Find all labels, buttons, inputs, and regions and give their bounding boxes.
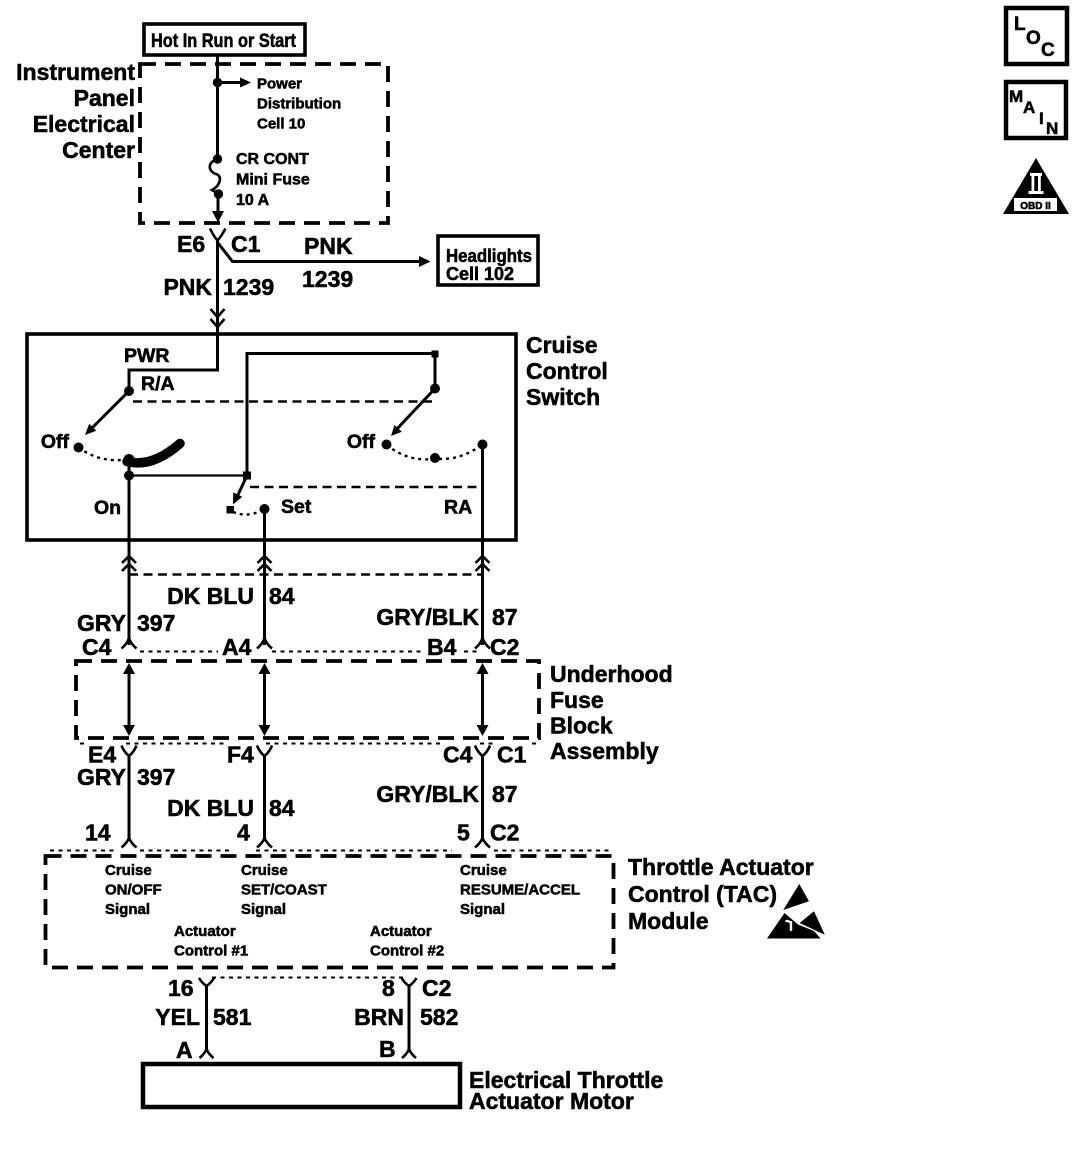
wire from Hot In Run or Start into instrument panel [216,55,219,159]
svg-text:L: L [1014,14,1026,35]
svg-text:ON/OFF: ON/OFF [105,882,162,899]
wire On to set pivot [129,474,247,476]
label CR CONT Mini Fuse 10 A [236,151,310,209]
svg-text:84: 84 [269,795,295,821]
node junction to Power Distribution [213,78,222,87]
connector face dotted line below TAC [212,977,404,979]
svg-text:Cruise: Cruise [526,332,598,358]
svg-text:Actuator: Actuator [174,923,236,940]
svg-text:5: 5 [457,820,470,846]
svg-text:397: 397 [137,764,175,790]
connector C1 terminal E6 [177,229,261,258]
svg-text:87: 87 [492,604,518,630]
svg-text:Cruise: Cruise [105,862,152,879]
svg-text:Center: Center [62,137,135,163]
svg-text:Control: Control [526,358,608,384]
svg-text:SET/COAST: SET/COAST [241,882,327,899]
connector wire-end flares above TAC module [122,838,491,848]
dashed detent line upper [133,400,433,402]
wire GRY 397 lower [77,756,175,838]
label GRY 397 upper [77,610,175,636]
svg-text:8: 8 [382,975,395,1001]
svg-text:Instrument: Instrument [16,59,135,85]
label terminals E4 F4 C4 C1 [88,742,527,768]
svg-text:Underhood: Underhood [550,661,673,687]
svg-text:Mini Fuse: Mini Fuse [236,172,310,189]
cruise control switch box [27,334,516,540]
contact square set arm end [227,506,235,514]
node R/A pivot (right switch) [430,384,440,394]
terminal B flare at motor [379,1036,416,1062]
node Off (left) [41,431,84,453]
svg-text:Block: Block [550,713,613,739]
svg-text:GRY: GRY [77,764,126,790]
wire break chevrons below switch [122,556,490,571]
svg-text:C: C [1041,40,1055,61]
node Off (right) [347,431,392,453]
wire arrow to Power Distribution Cell 10 [218,78,252,88]
label pin Cruise SET/COAST Signal [241,862,327,918]
wire PNK 1239 down from connector [163,240,274,305]
label Electrical Throttle Actuator Motor [469,1067,663,1114]
svg-text:C1: C1 [497,742,527,768]
svg-text:Module: Module [628,908,709,934]
node RA [444,440,488,519]
dotted travel arc to Set [233,510,262,515]
wire Set output down [263,509,266,645]
node R/A pivot [124,373,175,396]
svg-text:Hot In Run or Start: Hot In Run or Start [151,31,297,52]
svg-text:O: O [1026,28,1041,49]
svg-text:Set: Set [281,496,312,518]
svg-text:Signal: Signal [241,901,286,918]
label terminals C4 A4 B4 C2 [82,634,519,660]
svg-text:87: 87 [492,781,518,807]
svg-text:Throttle Actuator: Throttle Actuator [628,854,814,880]
label Instrument Panel Electrical Center [16,59,135,163]
svg-text:E6: E6 [177,231,205,257]
label GRY/BLK 87 upper [376,604,517,630]
bold wiper arc On position [124,444,181,466]
label pin Cruise ON/OFF Signal [105,862,162,918]
svg-text:YEL: YEL [155,1004,200,1030]
svg-text:RA: RA [444,497,472,519]
connector C2 terminal 8 below TAC [382,975,451,1001]
svg-text:R/A: R/A [141,373,175,395]
MAIN legend icon [1006,82,1066,138]
svg-text:GRY/BLK: GRY/BLK [376,604,479,630]
svg-text:397: 397 [137,610,175,636]
connector wire-end flares above fuse block [122,638,491,649]
svg-text:C4: C4 [443,742,473,768]
svg-text:Cell 102: Cell 102 [446,264,514,284]
label Underhood Fuse Block Assembly [550,661,673,764]
svg-text:Fuse: Fuse [550,687,604,713]
wire BRN 582 [354,985,458,1049]
label pin Actuator Control #2 [370,923,444,960]
label Cruise Control Switch [526,332,608,410]
svg-text:Signal: Signal [105,901,150,918]
svg-text:16: 16 [168,975,194,1001]
wire GRY/BLK 87 lower [376,756,517,838]
svg-text:C2: C2 [490,634,519,660]
terminal A flare at motor [176,1037,214,1063]
svg-text:PNK: PNK [163,274,212,300]
svg-text:M: M [1009,87,1023,106]
wire DK BLU 84 lower [167,756,295,838]
dotted travel arc off-RA [387,445,483,464]
wire break chevrons into switch [211,305,225,334]
LOC legend icon [1006,8,1067,64]
label pins 14 4 5 C2 [85,820,519,846]
fuse F1 CR CONT Mini Fuse 10 A [210,154,223,198]
wire YEL 581 [155,985,251,1049]
svg-text:Headlights: Headlights [446,246,532,266]
svg-text:PNK: PNK [304,233,353,259]
svg-text:OBD II: OBD II [1020,201,1051,212]
destination box Headlights Cell 102 [438,236,538,285]
connector terminals below fuse block [122,746,491,757]
throttle actuator control module dashed box [46,856,614,968]
connector C2 terminal 16 below TAC [168,975,214,1001]
instrument panel electrical center dashed box [140,64,388,223]
svg-text:F4: F4 [227,742,254,768]
svg-text:N: N [1046,119,1058,138]
svg-text:581: 581 [213,1004,252,1030]
dotted travel arc off-on [79,448,127,461]
svg-text:Assembly: Assembly [550,738,659,764]
wire PWR feed inside switch [124,334,218,388]
svg-text:Control #1: Control #1 [174,943,248,960]
OBD II legend triangle [1003,158,1069,214]
fuse block internal wire 2 with arrows [259,663,271,736]
connector face dotted line upper [140,651,481,653]
switch arm on-off (left) [85,391,129,435]
connector face dotted line at TAC top [50,850,610,852]
switch arm set [233,476,247,505]
svg-text:DK BLU: DK BLU [167,795,254,821]
svg-text:C2: C2 [490,820,519,846]
wire fuse to connector with arrow at box edge [212,194,224,223]
dashed continuation line below switch [129,573,483,575]
svg-text:B4: B4 [427,634,457,660]
svg-text:Distribution: Distribution [257,96,341,113]
svg-text:I: I [1039,109,1044,128]
svg-text:Control #2: Control #2 [370,943,444,960]
svg-text:DK BLU: DK BLU [167,583,254,609]
svg-text:A: A [176,1037,193,1063]
underhood fuse block dashed box [76,661,539,738]
svg-text:C1: C1 [231,231,261,257]
svg-text:Cell 10: Cell 10 [257,116,305,133]
svg-text:B: B [379,1036,396,1062]
svg-text:On: On [94,497,121,519]
connector face dotted line lower [80,743,538,745]
power feed box Hot In Run or Start [144,24,305,55]
svg-text:Switch: Switch [526,384,600,410]
svg-text:Off: Off [41,431,70,453]
svg-text:Panel: Panel [74,85,135,111]
svg-text:Cruise: Cruise [460,862,507,879]
svg-text:Control (TAC): Control (TAC) [628,881,777,907]
svg-text:Power: Power [257,76,302,93]
wire RA output down [481,445,484,646]
svg-text:Signal: Signal [460,901,505,918]
svg-text:A: A [1023,98,1035,117]
svg-text:Actuator Motor: Actuator Motor [469,1088,634,1114]
svg-text:BRN: BRN [354,1004,404,1030]
svg-text:10 A: 10 A [236,192,270,209]
svg-text:84: 84 [269,583,295,609]
label DK BLU 84 upper [167,583,295,609]
svg-text:Electrical: Electrical [33,111,135,137]
svg-text:1239: 1239 [223,274,274,300]
svg-text:C2: C2 [422,975,451,1001]
svg-text:PWR: PWR [124,345,170,367]
svg-text:GRY/BLK: GRY/BLK [376,781,479,807]
svg-text:1239: 1239 [302,266,353,292]
switch arm resume (right) [391,389,435,437]
svg-text:RESUME/ACCEL: RESUME/ACCEL [460,882,580,899]
svg-text:C4: C4 [82,634,112,660]
svg-text:582: 582 [420,1004,458,1030]
label Power Distribution Cell 10 [257,76,341,133]
fuse block internal wire 1 with arrows [123,663,135,736]
svg-text:4: 4 [237,820,250,846]
label pin Cruise RESUME/ACCEL Signal [460,862,580,918]
svg-text:GRY: GRY [77,610,126,636]
node On junction [94,459,134,519]
svg-text:Cruise: Cruise [241,862,288,879]
wire On output down [128,476,131,646]
set switch pivot contact [243,351,439,480]
ESD sensitive warning triangle [767,884,825,939]
dashed detent line lower [250,486,481,488]
svg-text:Actuator: Actuator [370,923,432,940]
label Throttle Actuator Control (TAC) Module [628,854,814,934]
svg-text:Off: Off [347,431,376,453]
svg-text:CR CONT: CR CONT [236,151,309,168]
fuse block internal wire 3 with arrows [477,663,489,736]
electrical throttle actuator motor box [143,1064,460,1107]
node Set [260,496,312,518]
svg-text:A4: A4 [222,634,252,660]
label pin Actuator Control #1 [174,923,248,960]
svg-text:14: 14 [85,820,111,846]
wire branch PNK 1239 to Headlights [218,233,431,292]
